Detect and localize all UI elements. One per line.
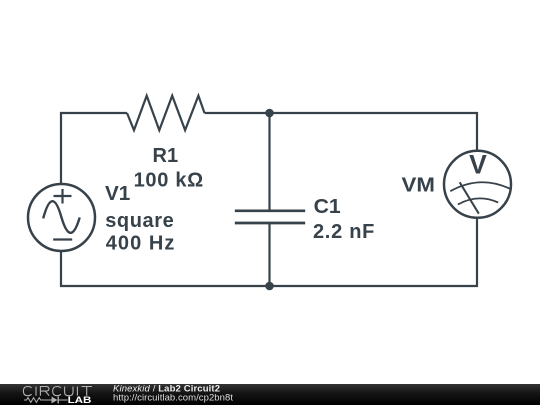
svg-text:square: square: [105, 210, 174, 232]
wire bottom rail (V1 bottom to VM bottom): [61, 217, 477, 286]
svg-text:http://circuitlab.com/cp2bn8t: http://circuitlab.com/cp2bn8t: [113, 393, 233, 404]
label V1 value square: [105, 210, 174, 232]
CircuitLab logo word LAB: [68, 395, 92, 405]
label R1 name: [153, 145, 179, 167]
voltage source V1 plus sign: [54, 189, 72, 204]
svg-text:R1: R1: [153, 145, 179, 167]
junction node B (bottom): [265, 282, 274, 291]
CircuitLab logo diode: [52, 397, 58, 404]
footer credit line author / title: [113, 384, 220, 395]
label C1 value 2.2 nF: [313, 221, 374, 243]
wire C1 bottom plate to node B: [268, 223, 270, 286]
voltmeter VM needle: [460, 182, 479, 213]
footer url line: [113, 393, 233, 404]
svg-text:400 Hz: 400 Hz: [106, 232, 175, 254]
voltage source V1 minus sign: [53, 238, 72, 240]
voltmeter VM scale arc upper: [450, 182, 510, 191]
svg-text:2.2 nF: 2.2 nF: [313, 221, 374, 243]
wire R1 right lead to node A: [205, 112, 270, 114]
svg-text:VM: VM: [402, 175, 435, 197]
CircuitLab logo word CIRCUIT (thin drawn letters): [23, 387, 92, 396]
label VM name: [402, 175, 435, 197]
wire node A down to C1 top plate: [268, 113, 270, 211]
capacitor C1 bottom plate: [235, 222, 305, 225]
CircuitLab logo resistor zigzag: [24, 398, 52, 403]
svg-text:100 kΩ: 100 kΩ: [134, 170, 204, 192]
capacitor C1 top plate: [235, 209, 305, 212]
svg-text:V1: V1: [105, 183, 130, 205]
label V1 name: [105, 183, 130, 205]
svg-text:C1: C1: [314, 196, 341, 218]
junction node A (top): [265, 109, 274, 118]
svg-text:LAB: LAB: [68, 395, 92, 405]
voltmeter VM circle: [444, 151, 511, 218]
voltmeter VM letter V: [469, 150, 487, 180]
label R1 value 100 kOhm: [134, 170, 204, 192]
voltmeter VM scale arc lower: [458, 198, 498, 204]
label V1 value 400 Hz: [106, 232, 175, 254]
resistor R1 zigzag: [127, 96, 205, 131]
voltage source V1 sine wave: [43, 201, 79, 233]
svg-text:V: V: [469, 150, 487, 180]
wire top-left horizontal (V1 top to R1 left lead): [61, 113, 127, 185]
voltage source V1 circle: [28, 184, 95, 251]
wire node A to top-right corner: [270, 113, 478, 152]
label C1 name: [314, 196, 341, 218]
